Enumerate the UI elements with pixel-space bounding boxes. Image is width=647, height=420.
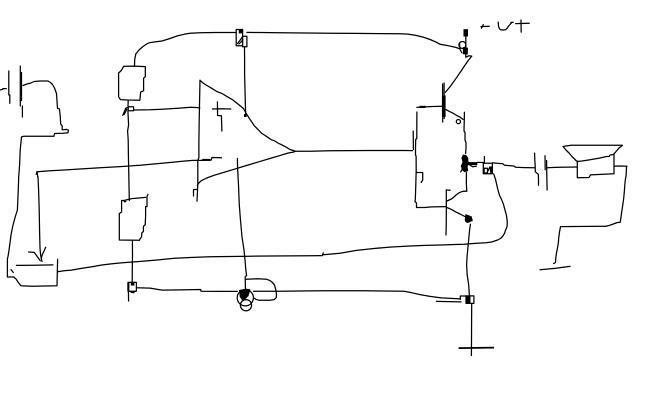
junction J5 box [128,282,136,291]
wire bottom run left [137,288,238,292]
resistor R2 bottom lead [131,241,133,283]
wire J1 down to R2 [128,111,130,201]
microphone M1 dark scribble [239,289,251,302]
transistor Q2 emitter arrow knot [465,214,473,223]
op-amp U1 plus input marker [213,102,231,131]
ground bar [459,347,494,350]
arrow wire vertical [38,177,42,262]
cell symbol electrolyte level line [16,264,53,267]
label plus sign left [481,25,489,29]
junction J2 box [236,30,242,46]
wire top rail right [247,32,459,48]
label letter U [498,22,513,30]
transistor Q1 base bar [442,83,446,122]
capacitor C1 right plate [545,156,547,190]
supply terminal filled box [464,29,469,36]
op-amp U1 corner bracket [194,190,198,197]
ground lead [470,304,472,356]
resistor R1 top lead [135,54,136,66]
junction J1 scribble [123,107,128,115]
wire bell-shaped loop from battery [22,81,69,137]
junction J2 dark square [239,29,243,33]
cell symbol cup outline [14,259,58,286]
wire vertical to microphone [237,159,246,291]
wire top rail left [136,33,236,55]
wire from J2 down to op-amp [244,47,247,117]
junction J5 stub below [127,292,129,301]
node knot at supply [459,42,468,55]
transistor Q2 collector diagonal [447,182,467,201]
wire bottom run right [254,291,461,299]
battery B1 long plate [20,66,22,117]
wire J1 to op-amp noninverting input [134,107,200,110]
wire Q2 emitter down [467,224,471,295]
wire J3 to capacitor [492,163,534,168]
wire short dash below [540,266,570,269]
resistor R2 body [119,194,148,240]
capacitor C1 left plate [535,153,539,185]
op-amp U1 minus input marker [202,158,222,161]
op-amp U1 bottom edge [197,152,294,186]
junction J2 second box [243,36,247,47]
label plus sign right [516,20,530,32]
transistor Q1 emitter diagonal [446,110,463,120]
wire op-amp output [294,150,413,153]
wire inverting input run [37,160,202,171]
junction J1 box [128,107,133,111]
speaker SP1 cone [563,145,623,161]
battery B1 short plate [9,71,10,103]
wire Q2 left vertical [415,112,446,208]
wire output bus lower run [58,256,322,272]
wire Q1 collector [445,56,472,93]
wire SP1 right terminal [606,166,627,226]
wire left vertical down to cup [7,137,21,277]
transistor Q2 base bar [446,190,450,235]
resistor R1 body [119,66,146,100]
wire supply box to knot [465,37,467,58]
junction J3 inner scribble [484,167,491,173]
arrow head left barb [29,252,41,261]
wire hook at arrow top [36,172,38,177]
junction J5 thick edge [127,283,129,291]
cell symbol inner tick [11,270,13,273]
junction J5 dark blob [131,282,135,286]
resistor R1 bottom lead [127,100,129,107]
junction J5 lip [131,291,135,292]
transistor Q2 emitter diagonal [447,208,469,219]
wire C1 to speaker [547,166,577,169]
op-amp U1 left edge [197,80,200,201]
bar at op-amp output end [412,131,414,149]
junction J3 thick edge [491,167,493,174]
junction J4 box [466,296,474,304]
wire knot2 output thick [468,162,484,163]
arrow head right barb [41,247,45,257]
bracket inside Q2 area [417,173,423,183]
transistor Q1 base lead [417,106,442,107]
wire output bus rising run [323,174,507,255]
junction J3 tick above [483,157,485,163]
junction J2 scribble [238,37,243,44]
microphone M1 outer circle [237,290,253,306]
junction J3 box [483,163,492,174]
op-amp U1 top edge [200,80,296,151]
wire overstroke dash [437,300,462,303]
microphone M1 lower loop [240,300,251,311]
node knot2 blob [461,155,477,173]
transistor Q1 emitter loop [456,120,460,124]
junction J4 flange [460,296,466,299]
wire Q1 emitter down [464,112,466,153]
speaker SP1 body box [577,153,614,177]
microphone M1 side capsule [246,279,277,301]
wire return run [554,226,606,263]
wire knot2 down [465,172,467,182]
wire tick at x322 [322,253,323,256]
battery B1 terminal stub wire [0,89,6,90]
